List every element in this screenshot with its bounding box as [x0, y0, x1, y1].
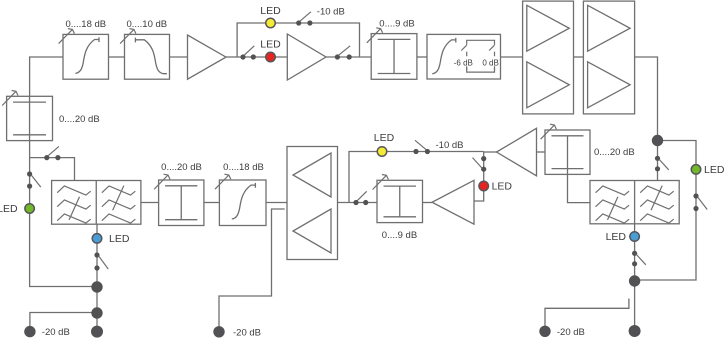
- green LED (right): [691, 165, 701, 175]
- yellow LED (bottom bypass): [377, 147, 387, 157]
- switch below blue LED (left): [94, 252, 99, 257]
- wire: input riser from 0-20dB attenuator up to top chain: [30, 57, 63, 96]
- wire: split to left diplexer top port: [30, 158, 75, 181]
- amplifier V1 (top): [188, 35, 227, 79]
- svg-text:0....20 dB: 0....20 dB: [161, 162, 202, 173]
- svg-text:0 dB: 0 dB: [482, 58, 498, 67]
- wire: node to green LED branch (right): [658, 141, 697, 166]
- amplifier V2 (top main path): [287, 34, 326, 80]
- wire: box8 to left diplexer: [141, 202, 159, 204]
- equalizer box 0-18 dB (top): [63, 34, 109, 79]
- green LED (left): [25, 204, 34, 214]
- wire: red LED branch down to amplifier V4: [474, 152, 484, 202]
- attenuator 0-20 dB (top left input): [7, 96, 53, 140]
- svg-text:0....18 dB: 0....18 dB: [223, 162, 264, 173]
- svg-text:0....9 dB: 0....9 dB: [382, 230, 417, 241]
- wire: left node to node2 and terminal: [96, 287, 98, 331]
- amp box B (dual amplifier, top): [583, 1, 634, 114]
- svg-text:0....20 dB: 0....20 dB: [59, 114, 100, 125]
- amplifier V4 (return path, small): [432, 180, 474, 224]
- switch on top bypass: [296, 20, 301, 25]
- terminal: middle -20 dB test point: [213, 326, 224, 337]
- wire: amp box A to amp box B: [574, 56, 584, 58]
- svg-text:-10 dB: -10 dB: [436, 140, 464, 151]
- wire: diplexer right cell down via blue LED / switch to node: [634, 224, 636, 276]
- svg-text:LED: LED: [260, 38, 281, 50]
- wire: box4 to amp box A: [501, 56, 523, 58]
- wire: box2 to amplifier V1: [170, 56, 188, 58]
- terminal: bottom right port: [629, 325, 641, 337]
- switch on bottom bypass: [413, 149, 418, 154]
- terminal: right -20 dB test point: [539, 326, 550, 337]
- wire: amp box B output to right-side drop: [635, 57, 658, 135]
- svg-text:LED: LED: [0, 203, 18, 215]
- red LED (return main path): [479, 181, 489, 191]
- left diplexer filter box: [52, 181, 141, 225]
- wire: box1 to box2: [109, 56, 125, 58]
- svg-text:-6 dB: -6 dB: [454, 58, 473, 67]
- wire: attenuator to amplifier V5: [537, 151, 546, 153]
- wire: amp box C to box7: [266, 202, 287, 204]
- node: top right junction: [652, 135, 663, 146]
- wire: middle -20 dB test tap: [219, 209, 285, 331]
- switch above red LED (return main path): [481, 156, 486, 161]
- svg-text:LED: LED: [374, 132, 395, 144]
- wire: main path through switch, LED and amplifier V2: [237, 56, 371, 58]
- wire: right 0-20dB attenuator bottom to diplexer left port: [568, 174, 591, 202]
- svg-text:-20 dB: -20 dB: [42, 327, 70, 338]
- svg-text:0....10 dB: 0....10 dB: [126, 19, 167, 30]
- svg-text:-10 dB: -10 dB: [317, 7, 345, 18]
- wire: left diplexer down via blue LED and switch to node: [96, 224, 98, 281]
- attenuator 0-20 dB (bottom): [159, 180, 204, 226]
- blue LED (right diplexer): [630, 232, 640, 242]
- blue LED (left diplexer): [92, 234, 102, 244]
- equalizer box 0-10 dB (top, falling): [125, 34, 170, 79]
- svg-text:0....9 dB: 0....9 dB: [379, 18, 414, 29]
- attenuator 0-9 dB (bottom): [377, 180, 423, 222]
- svg-text:LED: LED: [704, 164, 725, 176]
- equalizer box 0-18 dB (bottom): [219, 180, 266, 226]
- wire: 0-20dB attenuator down to split junction: [29, 141, 31, 158]
- svg-text:-20 dB: -20 dB: [557, 327, 585, 338]
- wire: box6 through switch to junction and amp box C: [337, 202, 377, 204]
- equalizer with -6/0 dB selector (box): [427, 34, 501, 79]
- wire: bottom bypass -10 dB line: [349, 152, 484, 203]
- svg-text:LED: LED: [260, 5, 281, 17]
- svg-text:0....20 dB: 0....20 dB: [594, 147, 635, 158]
- svg-text:LED: LED: [109, 233, 130, 245]
- switch after amplifier V2: [335, 54, 340, 59]
- switch before amp box C (return path): [353, 200, 358, 205]
- wire: split down through switch to green LED: [29, 158, 31, 205]
- terminal: bottom left port: [91, 326, 103, 338]
- wire: amplifier V4 to box6: [423, 202, 433, 204]
- wire: bypass branch -10 dB (up, across, down): [237, 23, 359, 57]
- right diplexer filter box: [590, 181, 679, 224]
- wire: box7 to box8: [204, 202, 219, 204]
- terminal: left -20 dB test point: [24, 326, 35, 337]
- node: left junction 2: [91, 307, 102, 318]
- wire: right -20 dB test tap: [545, 299, 629, 332]
- node: right junction: [629, 275, 640, 286]
- switch on branch to left diplexer: [44, 155, 49, 160]
- svg-text:0....18 dB: 0....18 dB: [65, 19, 106, 30]
- yellow LED (top bypass): [266, 18, 276, 28]
- svg-text:-20 dB: -20 dB: [233, 327, 261, 338]
- amp box A (dual amplifier, top): [523, 1, 574, 114]
- red LED (top main path): [266, 52, 276, 62]
- wire: green LED down and across to left node: [30, 213, 92, 287]
- amp box C (dual amplifier, return): [287, 147, 338, 260]
- svg-text:LED: LED: [606, 231, 627, 243]
- switch below top right node: [655, 156, 660, 161]
- switch before red LED (top main path): [240, 54, 245, 59]
- wire: right node to bottom terminal: [634, 281, 636, 331]
- switch above green LED (left): [27, 171, 32, 176]
- wire: amplifier V5 output to split: [484, 151, 497, 153]
- switch below green LED: [693, 193, 698, 198]
- amplifier V5 (return path, big): [497, 128, 537, 176]
- wire: amplifier V1 to bypass split: [226, 56, 237, 58]
- attenuator 0-9 dB (top): [371, 34, 417, 80]
- wire: left -20 dB test tap: [30, 313, 97, 332]
- svg-text:LED: LED: [492, 181, 513, 193]
- attenuator 0-20 dB (right): [545, 130, 590, 174]
- switch below blue LED (right): [632, 251, 637, 256]
- wire: node down through switch into diplexer: [657, 141, 659, 181]
- wire: green LED branch down to lower node: [640, 174, 696, 281]
- node: left junction 1: [91, 281, 102, 292]
- wire: box3 to box4: [417, 56, 427, 58]
